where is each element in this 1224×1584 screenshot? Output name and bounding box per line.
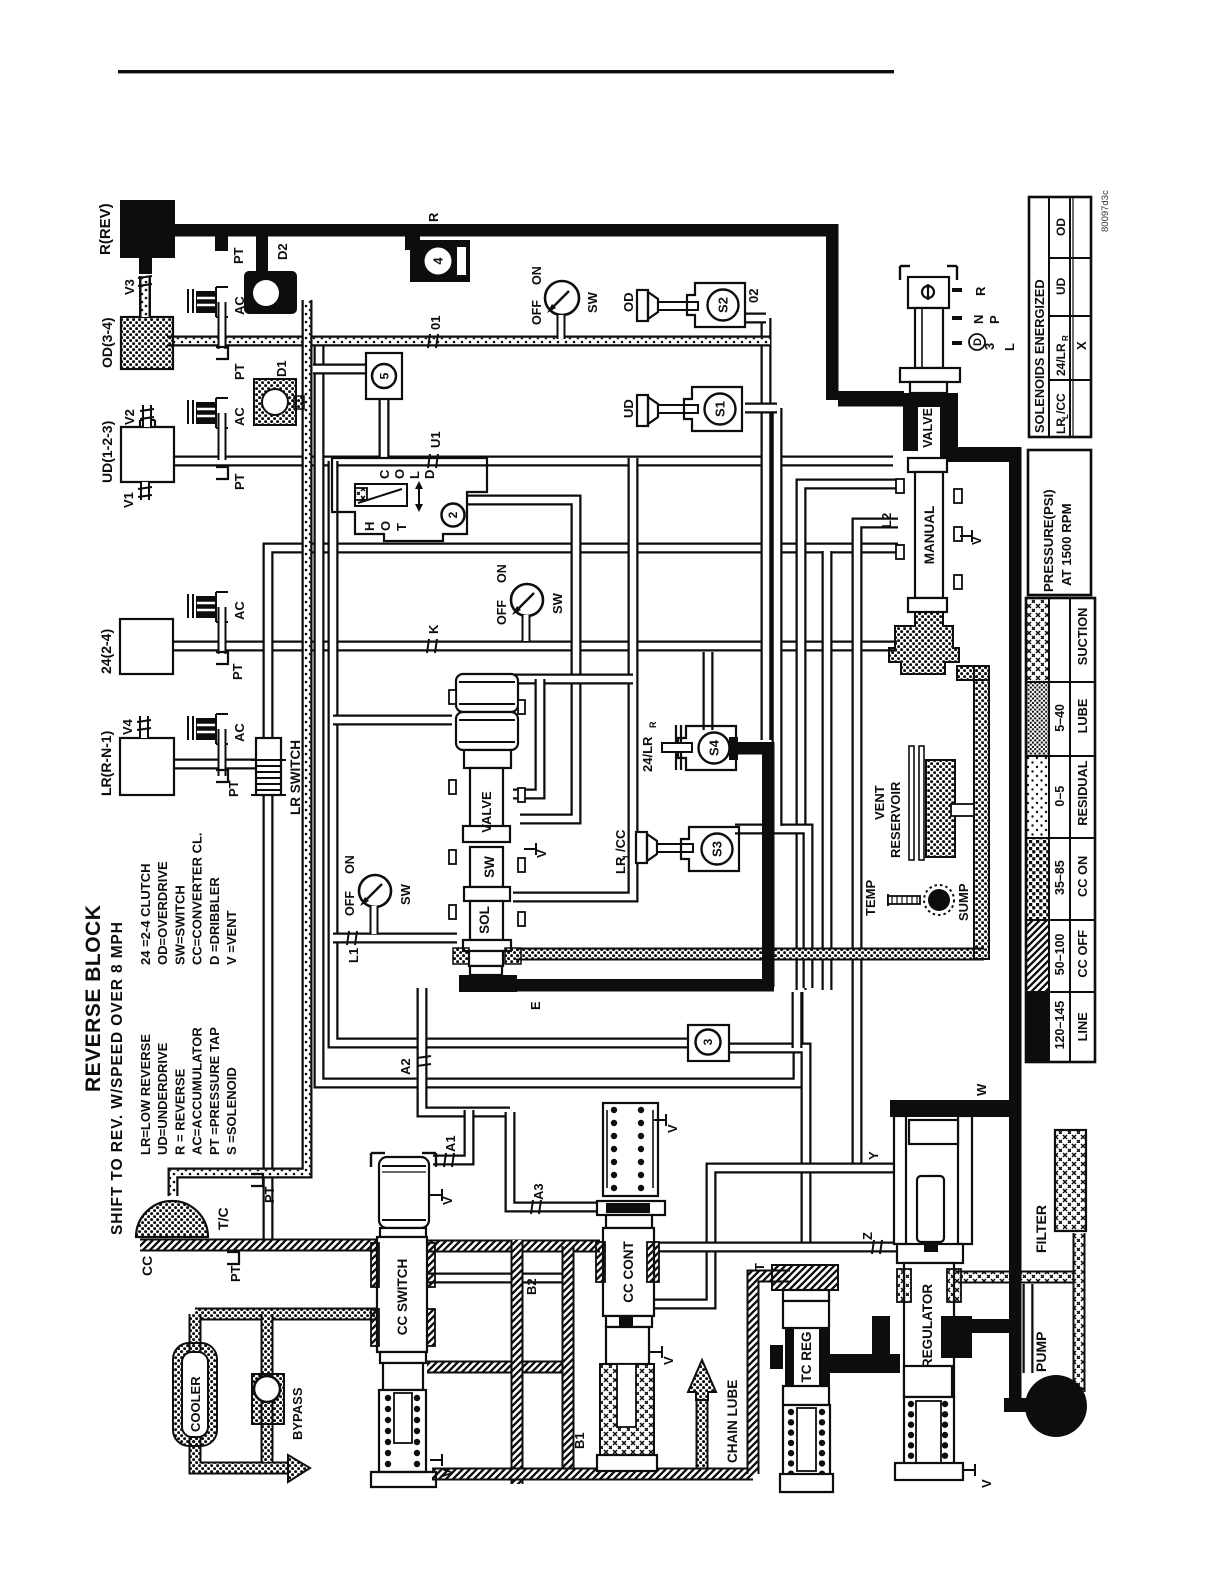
svg-text:R: R [648, 721, 658, 728]
svg-text:O: O [378, 521, 393, 531]
svg-text:O: O [392, 469, 407, 479]
svg-text:24/LR: 24/LR [1054, 343, 1068, 376]
spring dots right [414, 1395, 420, 1401]
wire S3 output [735, 829, 808, 988]
svg-text:AC: AC [232, 296, 247, 315]
svg-text:PRESSURE(PSI): PRESSURE(PSI) [1041, 489, 1056, 592]
CC switch spring piston [394, 1393, 412, 1443]
wire thick E line [516, 979, 774, 992]
stack port right [518, 858, 525, 872]
svg-text:LR SWITCH: LR SWITCH [288, 740, 303, 815]
svg-text:PT: PT [262, 1186, 277, 1203]
svg-text:L2: L2 [879, 513, 894, 528]
svg-text:U1: U1 [428, 431, 443, 448]
svg-text:UD: UD [1054, 277, 1068, 295]
CC switch body [377, 1237, 427, 1352]
svg-text:T: T [394, 523, 409, 531]
wire B2 hatched line [511, 1240, 524, 1484]
wire manual port down P1 [801, 484, 898, 990]
svg-text:24/LR: 24/LR [640, 736, 655, 772]
svg-text:UD=UNDERDRIVE: UD=UNDERDRIVE [155, 1042, 170, 1155]
svg-text:BYPASS: BYPASS [290, 1387, 305, 1440]
CC switch flange hatch lb [371, 1309, 379, 1346]
svg-text:PT: PT [231, 247, 246, 264]
svg-text:VALVE: VALVE [921, 408, 935, 448]
swatch LUBE [1026, 682, 1049, 756]
bypass valve [252, 1374, 284, 1424]
pressure tap PT [227, 1252, 239, 1264]
TC reg lower body [783, 1386, 829, 1405]
CC switch lower body [383, 1363, 423, 1390]
svg-text:ON: ON [530, 266, 544, 285]
svg-text:SW=SWITCH: SW=SWITCH [172, 885, 187, 965]
svg-text:SW: SW [585, 291, 600, 313]
svg-text:24 =2-4 CLUTCH: 24 =2-4 CLUTCH [138, 864, 153, 966]
svg-text:V: V [661, 1356, 676, 1365]
svg-text:80097d3c: 80097d3c [1100, 190, 1111, 232]
switch SW overdrive [545, 281, 579, 315]
wire OD(3-4) dotted line 01 [167, 336, 770, 347]
temp sensor [887, 894, 889, 906]
wire S1 down [772, 408, 783, 826]
svg-text:VALVE: VALVE [479, 791, 494, 833]
regulator collar black cap [924, 1241, 938, 1252]
CC cont collar [597, 1201, 665, 1215]
stack port right [518, 788, 525, 802]
svg-text:SW: SW [550, 592, 565, 614]
reservoir outlet stub [951, 804, 974, 816]
wire CC hatched line to CC CONT [427, 1240, 600, 1253]
stack collar 1 [464, 750, 511, 768]
svg-text:PT =PRESSURE TAP: PT =PRESSURE TAP [207, 1027, 222, 1155]
stack collar 5 [469, 951, 503, 966]
svg-text:5–40: 5–40 [1053, 704, 1067, 732]
node solenoid valve drain E [459, 975, 517, 992]
wire regulator to filter suction [958, 1271, 1079, 1284]
manual valve collar 2 [908, 458, 947, 472]
wire regulator W to main line [890, 1100, 1020, 1117]
manual port right [954, 527, 962, 541]
svg-text:PT: PT [232, 363, 247, 380]
CC cont collar black [606, 1203, 650, 1213]
svg-text:OD(3-4): OD(3-4) [99, 317, 115, 368]
table PRESSURE(PSI) AT 1500 RPM [1028, 450, 1091, 595]
svg-text:S4: S4 [707, 739, 722, 756]
accumulator AC for 24 [187, 594, 189, 618]
svg-text:L: L [1002, 343, 1017, 351]
svg-text:S =SOLENOID: S =SOLENOID [224, 1067, 239, 1155]
node 5 [372, 364, 396, 388]
thermal valve assembly [332, 458, 487, 541]
CC cont collar 2 [606, 1316, 652, 1327]
manual port right [954, 575, 962, 589]
svg-text:V: V [440, 1468, 455, 1477]
svg-text:UD(1-2-3): UD(1-2-3) [99, 421, 115, 483]
svg-text:LR: LR [1054, 418, 1068, 434]
node 2 [442, 504, 465, 527]
svg-text:V: V [969, 536, 984, 545]
svg-text:AC: AC [232, 407, 247, 426]
svg-text:3: 3 [701, 1038, 715, 1045]
wire bottom hatched lube line [432, 1468, 753, 1481]
CC cont neck [606, 1215, 652, 1228]
stack port left [449, 690, 456, 704]
TC reg spring piston [797, 1408, 816, 1471]
wire regulator to main line lower [972, 1319, 1021, 1333]
pressure tap PT [216, 770, 228, 782]
node 3 [696, 1030, 721, 1055]
wire chain lube stippled feed [696, 1400, 709, 1472]
manual valve detent box [899, 266, 901, 280]
svg-text:A3: A3 [531, 1183, 546, 1200]
pressure tap PT [216, 467, 228, 479]
svg-text:COOLER: COOLER [188, 1376, 203, 1432]
CC switch collar [380, 1228, 426, 1237]
svg-text:SUCTION: SUCTION [1075, 608, 1090, 666]
svg-text:SHIFT TO REV. W/SPEED OVER 8 M: SHIFT TO REV. W/SPEED OVER 8 MPH [109, 921, 126, 1235]
wire thick reverse line horizontal [175, 224, 838, 237]
regulator body [904, 1263, 954, 1397]
pressure tap PT stub on line [215, 236, 228, 251]
wire CC CONT to regulator Y [654, 1168, 897, 1304]
solenoid S4 [678, 726, 736, 770]
TC reg black tab l [770, 1345, 783, 1369]
checkball 4 [410, 240, 470, 282]
svg-text:V4: V4 [120, 718, 135, 735]
wire S2 out [745, 313, 766, 324]
accumulator piston top (central stack) [456, 674, 518, 712]
wire converter bypass stippled line [195, 1308, 380, 1321]
thermal flap [358, 489, 402, 503]
svg-text:/CC: /CC [613, 829, 628, 852]
CC cont body [603, 1228, 654, 1316]
svg-text:OFF: OFF [495, 600, 509, 625]
svg-text:OFF: OFF [343, 891, 357, 916]
regulator flange xhatch r [947, 1269, 961, 1302]
svg-text:01: 01 [428, 316, 443, 330]
svg-text:LR(R-N-1): LR(R-N-1) [98, 731, 114, 796]
stack seal left [453, 948, 469, 964]
solenoid S1 [684, 387, 742, 431]
svg-text:CHAIN LUBE: CHAIN LUBE [725, 1380, 740, 1463]
CC switch flange hatch rt [427, 1243, 435, 1287]
svg-text:R(REV): R(REV) [97, 203, 114, 255]
wire thermal valve out [468, 500, 576, 819]
wire chain lube channel to TC REG [753, 1276, 790, 1474]
wire thick line into manual valve [838, 391, 904, 407]
wire LR(R-N-1) line [174, 759, 258, 770]
manual valve stem [915, 308, 943, 368]
stack port left [449, 780, 456, 794]
svg-text:CC=CONVERTER CL.: CC=CONVERTER CL. [190, 832, 205, 965]
wire E/A2 connector [422, 988, 510, 1112]
filter element [1055, 1130, 1086, 1231]
svg-text:OD: OD [1054, 218, 1068, 236]
svg-text:PT: PT [228, 1265, 243, 1282]
swatch RESIDUAL [1026, 756, 1049, 838]
regulator spring box [904, 1397, 954, 1474]
svg-text:SUMP: SUMP [956, 883, 971, 921]
svg-text:T/C: T/C [215, 1207, 231, 1230]
stack collar 2 [463, 826, 510, 842]
svg-text:CC SWITCH: CC SWITCH [395, 1259, 410, 1336]
CC switch piston [379, 1157, 429, 1228]
CC cont flange hatch r [647, 1242, 659, 1282]
regulator lower body [904, 1366, 952, 1397]
spring dots left [385, 1395, 391, 1401]
wire dribbler 5 down [379, 399, 390, 459]
svg-text:CC ON: CC ON [1075, 856, 1090, 897]
swatch LINE solid [1026, 992, 1049, 1062]
regulator bottom flange [895, 1463, 963, 1480]
wire vent/E stippled line [516, 948, 984, 961]
node D gear [969, 334, 985, 350]
svg-text:UD: UD [621, 399, 636, 418]
svg-text:A1: A1 [443, 1135, 458, 1152]
svg-text:B2: B2 [524, 1278, 539, 1295]
pump [1025, 1375, 1087, 1437]
clutch 24(2-4) block [120, 619, 173, 674]
stack port left [449, 850, 456, 864]
TC reg black bar r [819, 1328, 830, 1386]
regulator top housing [894, 1116, 906, 1244]
wire S4 thick line [736, 742, 774, 755]
stack collar 4 [463, 940, 511, 951]
wire cooler stippled line [195, 1314, 288, 1468]
stack SOL section [470, 901, 503, 940]
svg-text:D1: D1 [274, 360, 289, 377]
wire CC switch to B1 pocket [427, 1273, 566, 1284]
svg-text:RESERVOIR: RESERVOIR [888, 781, 903, 858]
wire LR switch to manual valve [268, 548, 898, 738]
wire stack top loop a [513, 674, 633, 685]
svg-text:PT: PT [230, 663, 245, 680]
wire manual L2 down [857, 523, 898, 1170]
svg-text:ON: ON [343, 855, 357, 874]
svg-text:0–5: 0–5 [1053, 786, 1067, 807]
wire S4 thick line down [762, 742, 775, 987]
wire A1 line [433, 1110, 469, 1160]
wire V4 stub [139, 716, 149, 738]
wire S1 out [745, 403, 777, 414]
clutch UD(1-2-3) block [121, 427, 174, 482]
CC switch spring box [379, 1390, 426, 1472]
stack port right [518, 912, 525, 926]
svg-text:R: R [426, 212, 441, 222]
manual valve collar white [910, 382, 947, 393]
CC cont lower body [606, 1327, 649, 1364]
wire K to S4 [703, 652, 714, 730]
svg-text:OD: OD [621, 293, 636, 313]
svg-text:L1: L1 [346, 948, 361, 963]
svg-text:MANUAL: MANUAL [922, 506, 937, 565]
svg-text:TC REG: TC REG [799, 1331, 814, 1382]
svg-text:RESIDUAL: RESIDUAL [1075, 760, 1090, 826]
regulator collar [897, 1244, 963, 1263]
manual valve exhaust stippled block [889, 612, 959, 674]
swatch SUCTION [1026, 598, 1049, 682]
wire B1 hatched line [562, 1246, 575, 1474]
wire CC hatched lower line [427, 1361, 566, 1374]
svg-text:4: 4 [431, 257, 446, 265]
pressure tap PT [216, 652, 228, 664]
svg-text:D2: D2 [275, 243, 290, 260]
wire A3 line [510, 1112, 598, 1207]
accumulator AC for OD [187, 289, 189, 313]
svg-text:OD=OVERDRIVE: OD=OVERDRIVE [155, 861, 170, 965]
table pressure legend [1026, 598, 1095, 1062]
TC reg collar [783, 1290, 829, 1301]
svg-text:X: X [1074, 341, 1089, 350]
gear selector ticks [952, 288, 962, 292]
svg-text:V: V [665, 1124, 680, 1133]
svg-text:R = REVERSE: R = REVERSE [172, 1068, 187, 1155]
svg-text:2: 2 [446, 511, 460, 518]
chain lube arrow [688, 1360, 716, 1400]
svg-text:3: 3 [982, 343, 997, 350]
swatch CC OFF [1026, 920, 1049, 992]
cooler [173, 1343, 217, 1446]
svg-text:S1: S1 [713, 401, 728, 417]
wire A2 line lower [319, 345, 798, 1083]
CC cont spring xhatch [600, 1364, 654, 1455]
funnel symbol UD [637, 395, 648, 426]
manual valve bottom flange [908, 598, 947, 612]
wire stem to checkball 4 [405, 236, 420, 250]
svg-text:S3: S3 [710, 841, 725, 857]
svg-text:AC: AC [232, 723, 247, 742]
clutch LR(R-N-1) block [120, 738, 174, 795]
svg-text:V: V [979, 1479, 994, 1488]
TC reg black bar l [785, 1328, 794, 1386]
vent standpipe wall 2 [919, 746, 924, 860]
manual valve VALVE section [903, 393, 958, 407]
svg-text:AT 1500 RPM: AT 1500 RPM [1059, 503, 1074, 586]
reservoir fluid [926, 760, 955, 857]
wire filter to pump suction [1073, 1233, 1086, 1392]
funnel symbol LR/CC [636, 832, 647, 863]
switch SW low-rev [359, 875, 391, 907]
accumulator AC for UD [187, 400, 189, 424]
wire manual port down P2 [822, 551, 833, 990]
regulator flange xhatch l [897, 1269, 911, 1302]
swatch CC ON [1026, 838, 1049, 920]
svg-text:24(2-4): 24(2-4) [98, 629, 114, 674]
wire D2 dribbler dotted line to T/C [173, 300, 307, 1196]
wire stem to D2 [256, 236, 268, 274]
checkball 3 housing [688, 1025, 729, 1061]
svg-text:D: D [422, 470, 437, 479]
wire thick reverse line vertical [826, 224, 839, 400]
wire Z line [658, 1242, 900, 1253]
wire E to 3-circle [792, 992, 803, 1048]
wire pump suction channel [1023, 1284, 1034, 1373]
svg-text:R: R [973, 286, 988, 296]
svg-text:Y: Y [866, 1151, 881, 1160]
svg-text:CC: CC [139, 1256, 155, 1276]
svg-text:P: P [987, 315, 1002, 324]
wire V3 stem [139, 258, 152, 274]
svg-text:ON: ON [495, 564, 509, 583]
switch SW 2-4 [511, 584, 543, 616]
TC reg body [783, 1301, 829, 1328]
svg-text:T: T [752, 1263, 767, 1271]
stack seal right [505, 948, 521, 964]
accumulator AC for LR [187, 716, 189, 740]
wire S4 output stub [729, 737, 738, 760]
svg-text:TEMP: TEMP [863, 880, 878, 916]
svg-text:W: W [974, 1083, 989, 1096]
svg-text:R: R [1061, 335, 1070, 341]
TC reg top flange hatch [772, 1265, 838, 1290]
arrow cold-hot [418, 487, 420, 506]
wire bypass branch stippled [261, 1314, 274, 1462]
wire CC hatched line from T/C [140, 1239, 379, 1252]
svg-text:FILTER: FILTER [1033, 1205, 1049, 1253]
pressure tap PT [216, 347, 228, 359]
svg-text:5: 5 [377, 372, 391, 379]
regulator spring piston [916, 1401, 941, 1466]
CC cont flange hatch l [596, 1242, 605, 1282]
svg-text:SW: SW [398, 883, 413, 905]
switch valve body (central stack) [470, 768, 503, 832]
svg-text:SOL: SOL [477, 906, 492, 934]
svg-text:AC: AC [232, 601, 247, 620]
regulator black tab r [941, 1316, 972, 1358]
svg-text:LINE: LINE [1075, 1012, 1090, 1042]
TC reg spring box [783, 1405, 830, 1492]
svg-text:VENT: VENT [872, 785, 887, 820]
CC cont collar 2 black [619, 1316, 633, 1327]
CC switch bottom flange [371, 1472, 436, 1487]
wire L1 line [333, 933, 457, 944]
svg-text:C: C [377, 469, 392, 479]
svg-text:LR=LOW REVERSE: LR=LOW REVERSE [138, 1034, 153, 1155]
wire stack left port line [333, 715, 452, 726]
svg-text:B1: B1 [572, 1432, 587, 1449]
manual port left [896, 479, 904, 493]
manual valve flange top [900, 368, 960, 382]
torque converter T/C [136, 1201, 208, 1237]
wire S2 down [761, 318, 772, 740]
svg-text:LUBE: LUBE [1075, 698, 1090, 733]
svg-text:V3: V3 [122, 279, 137, 295]
svg-text:Z: Z [860, 1232, 875, 1240]
wire LR switch down [263, 795, 274, 1240]
dribbler 5 housing [366, 353, 402, 399]
stack collar 3 [464, 887, 510, 901]
wire main line to pump [1004, 1398, 1034, 1412]
svg-text:S2: S2 [716, 297, 731, 313]
svg-text:CC CONT: CC CONT [621, 1241, 636, 1303]
svg-text:SOLENOIDS ENERGIZED: SOLENOIDS ENERGIZED [1032, 279, 1047, 433]
svg-text:V2: V2 [122, 409, 137, 425]
stack neck [470, 966, 502, 975]
svg-text:02: 02 [746, 289, 761, 303]
dribbler D1 [254, 379, 296, 425]
CC switch valve top bracket [370, 1153, 372, 1167]
wire UD(1-2-3) line U1 [174, 456, 893, 467]
pressure tap PT [251, 1174, 263, 1186]
wire V2 stub [142, 405, 152, 427]
node R(REV) supply block [120, 200, 175, 258]
wire 3-circle down to Z [728, 1048, 806, 1243]
solenoid S3 [681, 827, 739, 871]
svg-text:K: K [426, 624, 441, 634]
vent reservoir walls [957, 666, 989, 680]
manual port right [954, 489, 962, 503]
regulator black tab l [872, 1316, 890, 1366]
